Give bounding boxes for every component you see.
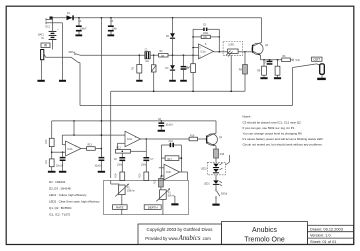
svg-text:Version: 1.0: Version: 1.0 — [310, 233, 331, 238]
svg-text:Provided by www.Anubics .com: Provided by www.Anubics .com — [145, 235, 211, 242]
LFO bus wire — [111, 91, 245, 178]
switch contact circle — [292, 59, 294, 61]
pot P1 DEPTH — [156, 188, 170, 214]
output jack J2 — [317, 64, 326, 80]
op-amp IC2B — [164, 164, 180, 180]
+9V top rail — [53, 17, 262, 19]
Vref line y=120.9 — [52, 120, 216, 122]
resistor R11 — [48, 159, 56, 173]
svg-text:R16: R16 — [190, 135, 195, 137]
svg-text:LDR1: LDR1 — [228, 45, 235, 47]
node dots emitter — [263, 59, 265, 61]
feedback resistor R17 — [161, 156, 182, 161]
capacitor C3 100n — [108, 18, 114, 35]
svg-text:LED1 : Yellow, high efficien: LED1 : Yellow, high efficiency — [49, 193, 87, 197]
optocoupler LDR1 dashed box — [223, 42, 243, 56]
svg-text:Drawn: 09.12.2003: Drawn: 09.12.2003 — [310, 226, 343, 231]
DC1 jack — [46, 17, 53, 31]
resistor R14 — [120, 172, 125, 181]
node dots on bus — [153, 91, 155, 93]
IC2B feedback loop with C10 — [161, 143, 181, 172]
DEPTH label box — [144, 205, 161, 210]
IC1B + input drop — [73, 121, 75, 135]
wire R13 to vertical — [95, 148, 101, 150]
node dot rail-main vertical — [101, 17, 103, 19]
wire C1 to R2 — [150, 54, 158, 56]
R10-R11 junction — [51, 147, 66, 159]
LED2 diodes — [213, 163, 223, 173]
svg-text:150n: 150n — [117, 164, 123, 166]
svg-text:50k lin: 50k lin — [168, 195, 175, 197]
Q2 emitter wire — [260, 55, 282, 60]
op-amp IC2A — [125, 131, 141, 147]
Q2 collector wire to rail — [260, 42, 262, 44]
ground C2 — [75, 34, 82, 36]
zener D2 — [170, 18, 175, 55]
bypass drop wire — [79, 63, 293, 106]
Q1 emitter wire — [214, 146, 216, 149]
svg-text:You can change output level by: You can change output level by changing … — [243, 132, 303, 136]
main vertical wire x=101.4 — [100, 18, 102, 157]
svg-text:150n: 150n — [141, 164, 147, 166]
feedback right vertical to output — [218, 29, 220, 52]
RATE label box — [113, 205, 128, 210]
svg-text:LED1: LED1 — [204, 183, 211, 185]
capacitor C1 series — [145, 52, 150, 59]
Vref left drop to R10 — [51, 121, 53, 138]
resistor R8 — [243, 52, 248, 92]
node dot signal-trim drop — [153, 54, 155, 56]
svg-text:RATE: RATE — [116, 206, 124, 210]
IC1A + input wire — [193, 47, 198, 49]
svg-text:BAT1: BAT1 — [38, 33, 44, 36]
optocoupler LED2 dashed box — [208, 162, 226, 175]
svg-text:IC2a: IC2a — [127, 139, 133, 141]
Q1 collector to Vref line — [214, 121, 216, 134]
feedback resistor R5 — [192, 35, 220, 38]
op-amp IC1A — [199, 44, 214, 59]
output switch lever — [293, 64, 317, 68]
switch SW1a — [46, 53, 81, 63]
svg-text:LED2: LED2 — [201, 168, 208, 170]
pots enclosure box — [104, 180, 189, 214]
input jack J1 — [41, 50, 46, 60]
svg-text:Tremolo One: Tremolo One — [244, 237, 285, 244]
svg-text:9 lfo: 9 lfo — [296, 60, 301, 62]
capacitor C12 — [59, 151, 66, 172]
svg-text:C10: C10 — [169, 141, 174, 143]
svg-text:It's saves battery power and w: It's saves battery power and will act as… — [243, 137, 324, 141]
node dot rail-C3 — [110, 17, 112, 19]
svg-text:100n: 100n — [203, 33, 209, 35]
resistor R15 — [144, 172, 149, 181]
optocoupler link arrows — [225, 155, 229, 165]
resistor R4 drop — [191, 55, 196, 91]
resistor R6 series — [282, 58, 291, 62]
svg-text:100k lin: 100k lin — [127, 190, 136, 192]
DC1 sleeve wire + ground — [53, 23, 67, 82]
op-amp IC1B — [66, 141, 82, 156]
LDR1 element — [226, 49, 245, 57]
battery BAT1 — [49, 30, 60, 50]
resistor R3 to ground — [136, 55, 142, 82]
wire R16 to Q1 base — [198, 138, 207, 140]
svg-text:R14: R14 — [116, 173, 118, 178]
notes text block — [243, 115, 324, 147]
trimmer box — [151, 55, 156, 91]
resistor R13 series — [87, 147, 96, 151]
switch SW1b — [212, 185, 219, 206]
signal wire input section — [80, 54, 145, 56]
svg-text:R11: R11 — [46, 159, 48, 164]
capacitor C8 decoupling — [158, 121, 165, 132]
transistor Q2 — [245, 43, 263, 55]
svg-text:1M: 1M — [161, 56, 164, 58]
svg-text:100n: 100n — [112, 28, 118, 30]
svg-text:OUT: OUT — [313, 58, 320, 62]
IC2B - input wire — [161, 158, 164, 177]
wire R6 to switch contact — [290, 59, 292, 61]
pot P2 RATE — [111, 180, 129, 214]
svg-text:DC1: DC1 — [46, 27, 51, 29]
capacitor C11 — [267, 60, 273, 65]
LDR1 left leg down — [230, 55, 232, 91]
svg-text:R17: R17 — [168, 159, 173, 161]
svg-text:10u/16: 10u/16 — [56, 165, 64, 167]
svg-text:C3 should be placed near IC1,: C3 should be placed near IC1, C11 near Q… — [243, 120, 302, 124]
capacitor C9 — [98, 149, 105, 173]
resistor R2 series — [159, 53, 169, 57]
svg-text:D1 : 1N4004: D1 : 1N4004 — [49, 180, 66, 184]
IC2A output wire — [141, 138, 190, 140]
svg-text:C11: C11 — [265, 59, 267, 64]
title block info box — [308, 225, 354, 244]
svg-text:R13: R13 — [88, 145, 93, 147]
component list — [49, 180, 100, 216]
resistor R18 — [214, 149, 219, 162]
OUT label box — [312, 57, 323, 61]
IN label box — [41, 43, 50, 48]
svg-text:Copyright 2003 by Gottfried Di: Copyright 2003 by Gottfried Divos — [147, 227, 214, 232]
svg-text:Notes :: Notes : — [243, 115, 253, 119]
feedback capacitor C5 — [193, 28, 219, 31]
resistor R19 — [159, 176, 164, 191]
svg-text:R18: R18 — [220, 154, 225, 156]
svg-text:Circuit not tested yet, but sh: Circuit not tested yet, but should work … — [243, 143, 323, 147]
svg-text:Q1, Q2 : BC550C: Q1, Q2 : BC550C — [49, 206, 72, 210]
Vref wire to IC2a + input — [62, 134, 125, 136]
capacitor C2 100uF — [76, 18, 82, 35]
capacitor C7 — [143, 157, 149, 172]
resistor R10 — [49, 138, 54, 146]
svg-text:SW1b: SW1b — [221, 193, 228, 195]
svg-text:IC2b: IC2b — [166, 172, 172, 174]
IC1A feedback left vertical — [192, 29, 194, 63]
LED1 — [213, 175, 222, 186]
pot wiper ground — [171, 196, 178, 205]
svg-text:D2, D3 : 1N4148: D2, D3 : 1N4148 — [49, 187, 71, 191]
IC1B + input feedback wire — [62, 135, 65, 145]
wire R2 to IC1A — [168, 54, 199, 56]
svg-text:If you can get, use 500k rev.: If you can get, use 500k rev. log. for P… — [243, 126, 295, 130]
svg-text:SW1a: SW1a — [69, 52, 76, 54]
svg-text:R19: R19 — [155, 179, 157, 184]
title block anubics box — [222, 222, 308, 245]
IC2A feedback R12 — [116, 139, 147, 157]
node dot output-R8 — [244, 51, 246, 53]
diode D3 to ground — [169, 55, 176, 82]
diode D1 — [67, 15, 74, 20]
node dots on Vref line — [73, 120, 75, 122]
capacitor C4 to ground — [180, 55, 187, 82]
title block copyright box — [138, 224, 222, 244]
svg-text:R12: R12 — [117, 148, 122, 150]
svg-text:Sheet: 01 of 01: Sheet: 01 of 01 — [310, 239, 336, 244]
IC1A output wire — [214, 51, 228, 53]
svg-text:IC1b: IC1b — [68, 149, 74, 151]
node dot signal-R3drop — [139, 54, 141, 56]
resistor R16 series — [189, 137, 197, 141]
resistor R9 to ground — [260, 60, 267, 79]
resistor R10a to ground — [274, 60, 281, 79]
svg-text:10u/16: 10u/16 — [95, 165, 103, 167]
node dot rail-C2 — [78, 17, 80, 19]
svg-text:100uF: 100uF — [80, 28, 87, 30]
svg-text:LED2 : Clear 5mm case, high: LED2 : Clear 5mm case, high efficiency — [49, 200, 100, 204]
svg-text:R10: R10 — [46, 139, 48, 144]
svg-text:10u/16: 10u/16 — [166, 124, 174, 126]
svg-text:DEPTH: DEPTH — [148, 206, 158, 210]
IC2B + input wire — [159, 167, 164, 169]
svg-text:IN: IN — [41, 38, 44, 40]
IC1B output wire — [81, 148, 87, 150]
node dot rail-D2 — [172, 17, 174, 19]
svg-text:IC1a: IC1a — [201, 52, 207, 54]
jack sleeve wire + ground — [37, 60, 44, 82]
svg-text:R15: R15 — [140, 173, 142, 178]
svg-text:Anubics: Anubics — [252, 227, 277, 234]
IC2B output wire — [180, 172, 188, 180]
node dots on signal wire — [172, 54, 174, 56]
transistor Q1 — [206, 134, 217, 146]
ground C3 — [107, 34, 114, 36]
svg-text:IC1, IC2 : TL072: IC1, IC2 : TL072 — [49, 212, 71, 216]
capacitor C6 — [119, 151, 125, 173]
